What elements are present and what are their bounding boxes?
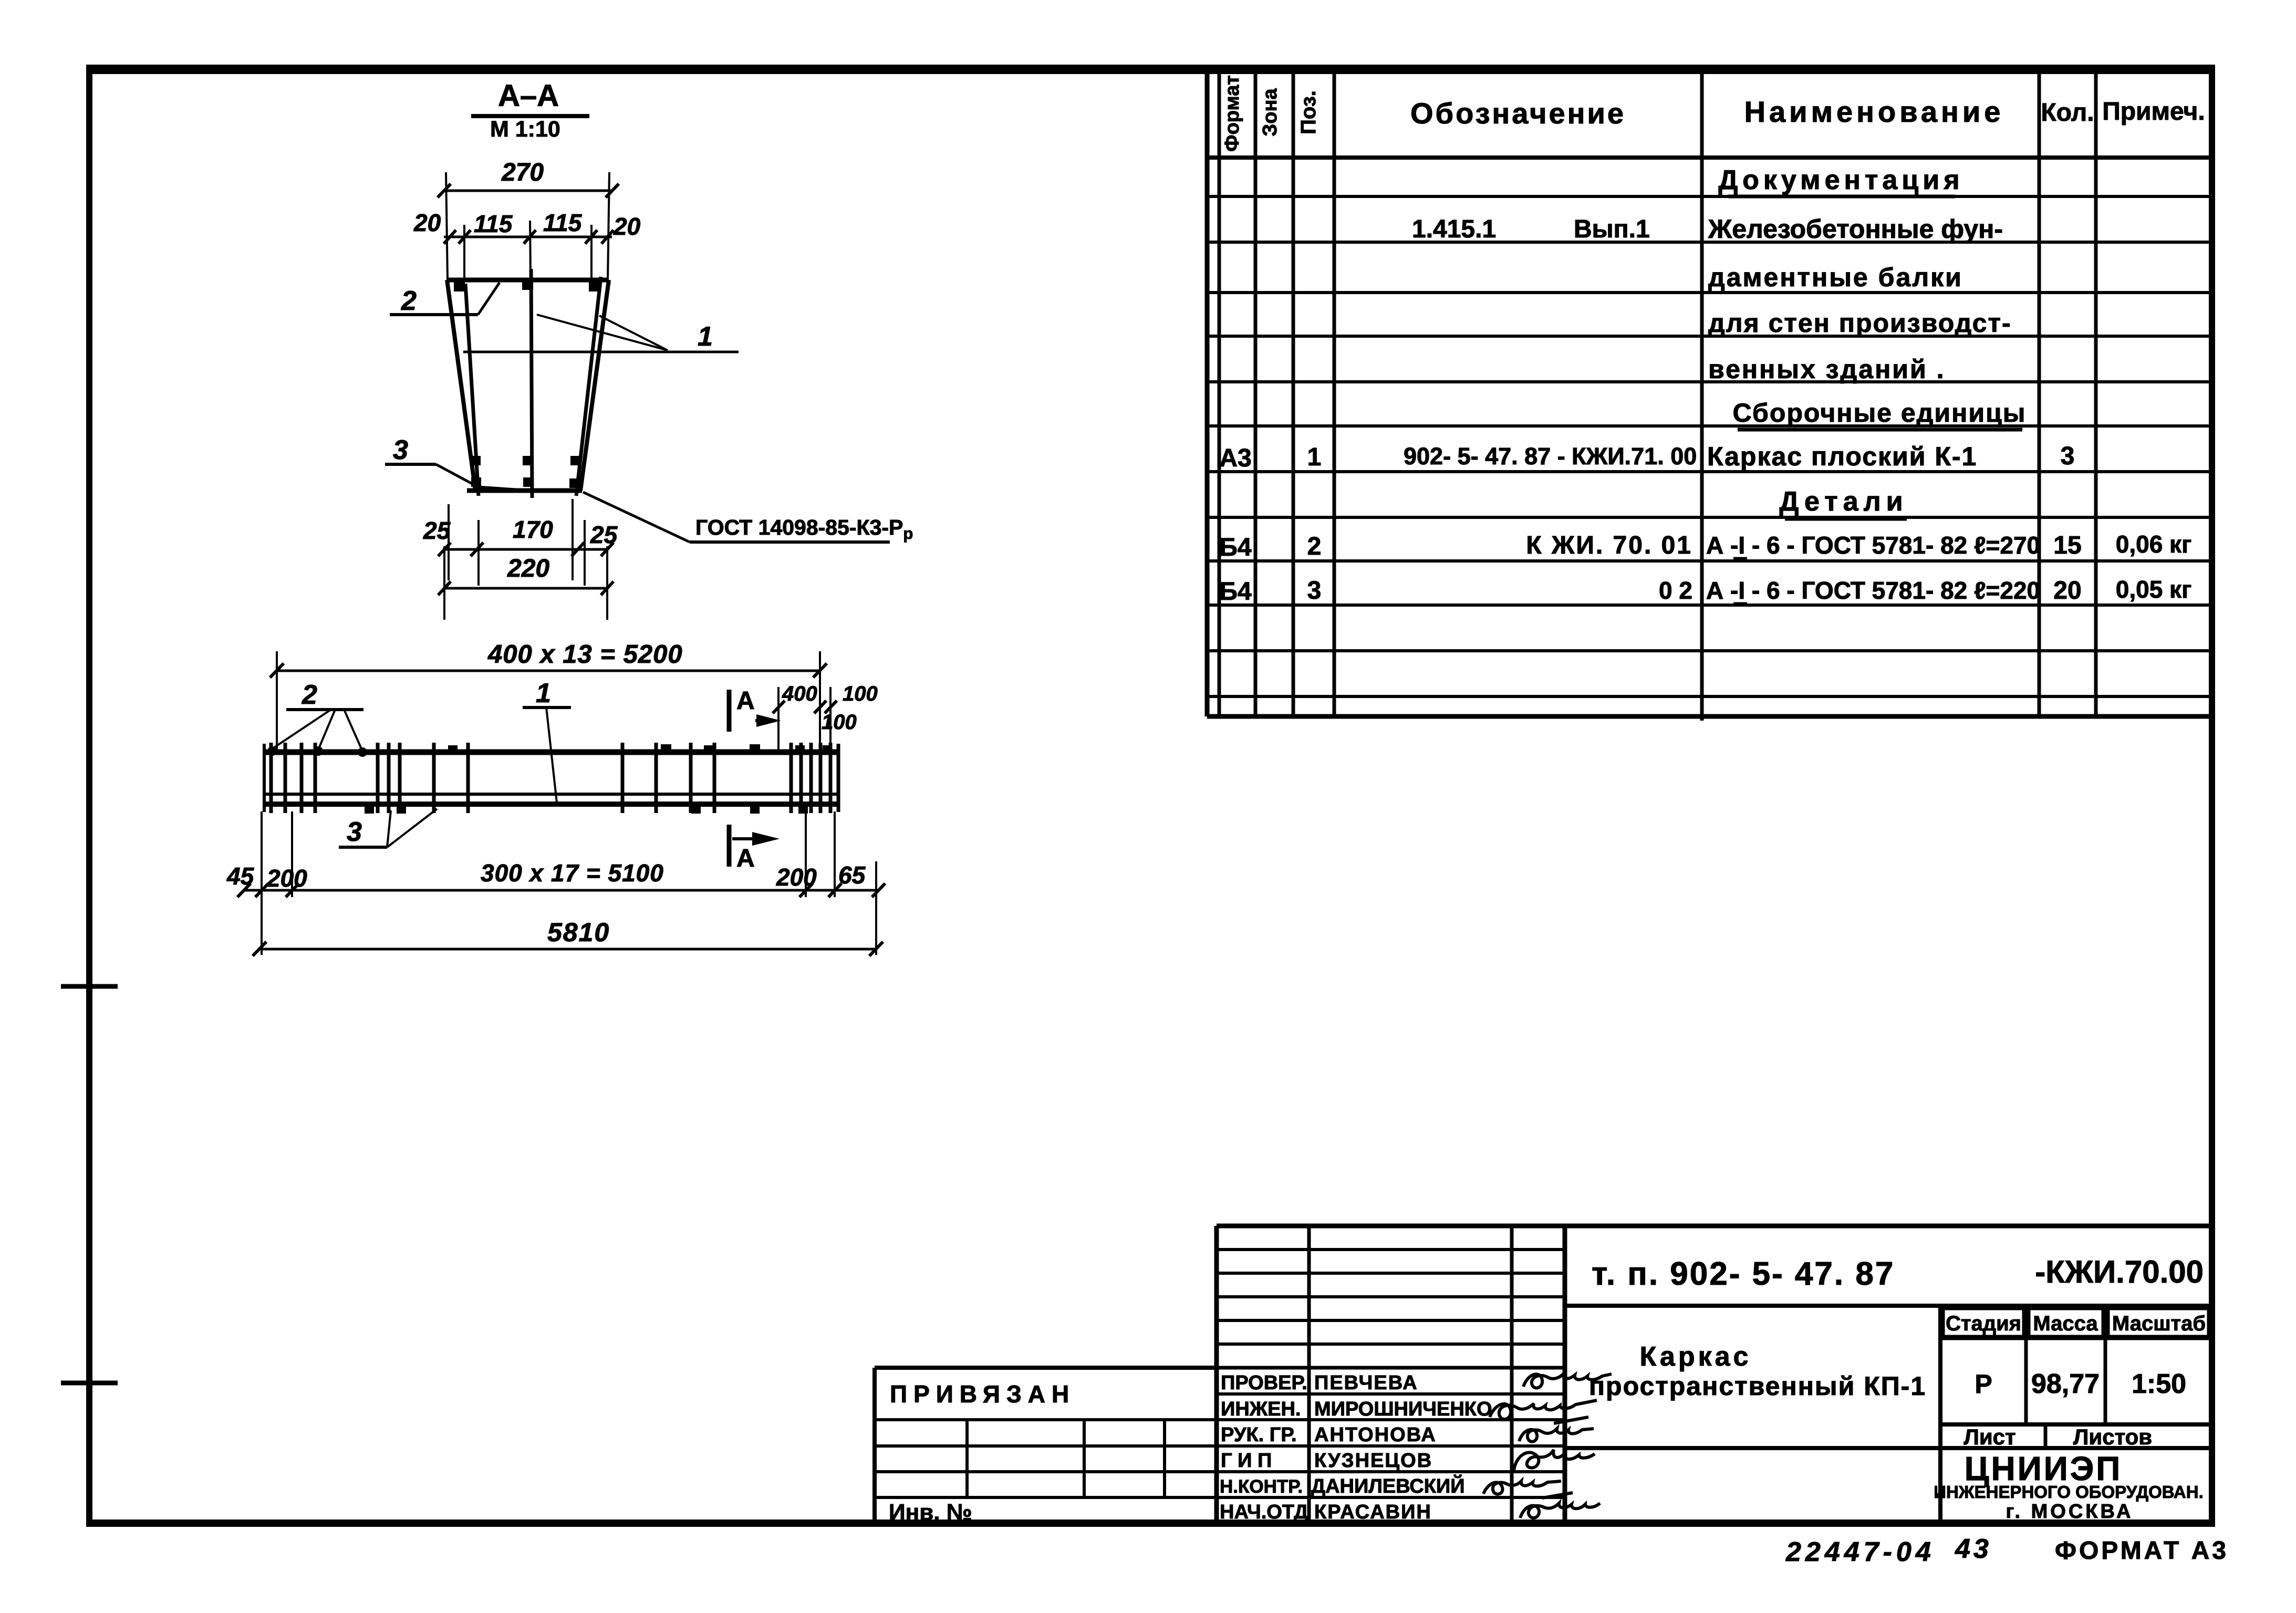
left grid line 3 [875, 1470, 1217, 1473]
crossbar dots on bottom chord [365, 805, 374, 814]
label 2 underline [286, 708, 363, 711]
rebar line left [465, 284, 479, 496]
org cell top line [1565, 1446, 2212, 1450]
dimension 400x13=5200 line [277, 670, 820, 672]
label 1 underline [523, 706, 571, 709]
svg-text:ГОСТ 14098-85-К3-Рр: ГОСТ 14098-85-К3-Рр [695, 515, 913, 543]
signature 2 [1490, 1400, 1597, 1423]
dimension 270 line [444, 190, 612, 192]
spec table column Кол right [2094, 69, 2098, 716]
svg-text:К ЖИ. 70. 01: К ЖИ. 70. 01 [1526, 532, 1692, 559]
svg-text:даментные балки: даментные балки [1708, 263, 1963, 292]
svg-text:А: А [736, 687, 755, 715]
svg-text:ИНЖЕН.: ИНЖЕН. [1221, 1398, 1301, 1420]
extension line 200 left [291, 811, 293, 897]
row Документация underline [1728, 195, 1955, 199]
spec table row line 12 [1207, 695, 2212, 698]
left grid col 1 [965, 1420, 969, 1497]
svg-text:1: 1 [1307, 443, 1322, 471]
svg-text:Каркас плоский К-1: Каркас плоский К-1 [1707, 442, 1977, 471]
spec table row line 8 [1207, 516, 2212, 519]
svg-text:20: 20 [413, 209, 441, 236]
rebar dot top center [522, 280, 533, 290]
signature 4 [1514, 1450, 1595, 1471]
leader contact dots [267, 746, 277, 756]
spec table row line 9 [1207, 559, 2212, 563]
svg-text:20: 20 [2053, 577, 2081, 605]
label 2 underline [390, 313, 478, 316]
left grid line 1 [875, 1418, 1217, 1421]
svg-text:Н.КОНТР.: Н.КОНТР. [1220, 1476, 1303, 1497]
rebar dot bottom center [523, 477, 533, 487]
stirrup group left [269, 743, 273, 813]
svg-text:ИНЖЕНЕРНОГО ОБОРУДОВАН.: ИНЖЕНЕРНОГО ОБОРУДОВАН. [1934, 1482, 2204, 1502]
extension line left [446, 172, 448, 280]
svg-text:пространственный КП-1: пространственный КП-1 [1589, 1371, 1926, 1401]
svg-text:200: 200 [266, 865, 307, 892]
left grid line 2 [875, 1444, 1217, 1448]
svg-text:КУЗНЕЦОВ: КУЗНЕЦОВ [1314, 1450, 1432, 1472]
svg-text:ФОРМАТ А3: ФОРМАТ А3 [2055, 1537, 2229, 1565]
list row divider [2044, 1424, 2048, 1448]
svg-text:А -I - 6 - ГОСТ 5781- 82 ℓ=27: А -I - 6 - ГОСТ 5781- 82 ℓ=270 [1706, 532, 2040, 559]
svg-text:2: 2 [302, 680, 317, 710]
svg-text:Документация: Документация [1718, 165, 1963, 195]
right dim ticks [773, 701, 785, 713]
label 3 underline [385, 463, 436, 466]
spec table row line 7 [1207, 470, 2212, 473]
stadia header box 1 [1944, 1309, 2023, 1336]
title block divider signature column [1510, 1226, 1514, 1523]
svg-text:Р: Р [1975, 1369, 1992, 1399]
spec table inner left line [1218, 69, 1221, 716]
svg-text:т. п. 902- 5- 47. 87: т. п. 902- 5- 47. 87 [1592, 1256, 1895, 1292]
svg-text:0 2: 0 2 [1659, 577, 1692, 604]
rebar dot top right [589, 282, 600, 292]
stirrup single a [432, 743, 436, 813]
svg-text:98,77: 98,77 [2031, 1369, 2100, 1399]
svg-text:М 1:10: М 1:10 [490, 117, 560, 142]
svg-text:5810: 5810 [547, 918, 610, 947]
svg-text:3: 3 [1307, 577, 1322, 605]
svg-text:Кол.: Кол. [2041, 99, 2094, 127]
beam section bottom edge [467, 488, 582, 493]
svg-text:Масштаб: Масштаб [2112, 1312, 2206, 1335]
svg-text:ПРИВЯЗАН: ПРИВЯЗАН [890, 1380, 1075, 1408]
svg-text:А–А: А–А [498, 79, 559, 113]
extension line 65 right [875, 861, 877, 955]
rebar dot bottom left [471, 477, 481, 487]
spec table left edge [1205, 69, 1210, 716]
spec table column Поз right [1333, 69, 1336, 716]
dimension 5810 line [259, 948, 876, 951]
title block top edge [1217, 1224, 2212, 1229]
svg-text:-КЖИ.70.00: -КЖИ.70.00 [2035, 1254, 2204, 1289]
beam section top edge [447, 278, 609, 283]
svg-text:Железобетонные фун-: Железобетонные фун- [1708, 214, 2003, 244]
stamp row lines [1217, 1366, 1565, 1370]
spec table row line 1 [1207, 195, 2212, 198]
label 3 underline [339, 846, 387, 849]
label 2 leader fan [271, 710, 331, 750]
extension line 45 [261, 811, 263, 955]
spec table bottom edge [1207, 714, 2212, 719]
dimension 300x17 line [244, 889, 878, 892]
svg-text:20: 20 [613, 213, 641, 240]
section mark A bottom bar [727, 825, 732, 867]
svg-text:Масса: Масса [2033, 1312, 2098, 1335]
row Сборочные единицы underline [1738, 428, 2022, 432]
rebar line right [576, 277, 601, 496]
list row top line [1940, 1422, 2212, 1427]
beam section right side [580, 280, 609, 491]
signature 5 [1483, 1481, 1573, 1498]
right dim extension a [777, 687, 780, 751]
extension line d [584, 520, 586, 586]
centering mark left lower [61, 1381, 118, 1386]
rebar dot mid right [570, 456, 580, 465]
left grid col 2 [1083, 1420, 1086, 1497]
svg-text:Б4: Б4 [1219, 578, 1252, 606]
dimension 25-170-25 line [444, 548, 607, 551]
extension line right of 5200 [819, 651, 821, 751]
extension line right [608, 172, 609, 280]
spec table column Обозначение right [1700, 69, 1704, 721]
svg-text:3: 3 [347, 817, 362, 847]
spec table row line 2 [1207, 241, 2212, 244]
beam left end [263, 744, 266, 812]
beam right end [837, 744, 840, 812]
svg-text:Инв. №: Инв. № [889, 1500, 972, 1525]
svg-text:3: 3 [2061, 442, 2075, 470]
svg-text:ДАНИЛЕВСКИЙ: ДАНИЛЕВСКИЙ [1311, 1474, 1465, 1497]
svg-text:270: 270 [501, 159, 544, 186]
svg-text:Наименование: Наименование [1744, 95, 2004, 128]
stadia column dividers [2024, 1306, 2028, 1424]
svg-text:220: 220 [507, 555, 549, 582]
svg-text:1: 1 [536, 678, 551, 709]
stirrup single c [621, 743, 625, 813]
svg-text:ПРОВЕР.: ПРОВЕР. [1221, 1372, 1307, 1394]
svg-text:0,06 кг: 0,06 кг [2116, 530, 2192, 558]
svg-text:2: 2 [1307, 533, 1322, 560]
stirrup group right [789, 743, 793, 813]
svg-text:1.415.1: 1.415.1 [1412, 215, 1496, 243]
row 3: underline of I [1733, 602, 1747, 605]
title block divider name column [1307, 1226, 1311, 1523]
svg-text:НАЧ.ОТД: НАЧ.ОТД [1220, 1501, 1308, 1523]
svg-text:ПЕВЧЕВА: ПЕВЧЕВА [1314, 1372, 1418, 1394]
left grid line 4 [875, 1496, 1217, 1499]
beam bottom chord upper line [264, 793, 838, 796]
svg-text:Лист: Лист [1963, 1424, 2016, 1449]
svg-text:г. МОСКВА: г. МОСКВА [2006, 1501, 2134, 1523]
spec table row line 11 [1207, 649, 2212, 652]
svg-text:Обозначение: Обозначение [1410, 97, 1626, 130]
svg-text:Вып.1: Вып.1 [1574, 215, 1650, 243]
extension line 65 left [834, 811, 836, 897]
title block left edge [1214, 1226, 1219, 1523]
stirrup pair mid [689, 743, 693, 813]
svg-text:АНТОНОВА: АНТОНОВА [1314, 1424, 1437, 1446]
spec table column Наименование right [2038, 69, 2041, 716]
svg-text:Г И П: Г И П [1221, 1450, 1272, 1472]
doc number cell line [1565, 1304, 2212, 1308]
title block divider main [1563, 1226, 1567, 1523]
extension line 200 right [805, 811, 807, 897]
spec table row line 3 [1207, 291, 2212, 294]
svg-text:МИРОШНИЧЕНКО: МИРОШНИЧЕНКО [1314, 1398, 1492, 1420]
caption cell right divider [1938, 1306, 1942, 1523]
section mark A bottom arrow [732, 837, 768, 840]
svg-text:Листов: Листов [2073, 1424, 2152, 1449]
svg-text:1: 1 [698, 321, 713, 352]
weld callout underline [690, 540, 890, 544]
svg-text:Примеч.: Примеч. [2102, 98, 2205, 126]
label 2 leader [478, 283, 500, 315]
extension line f [606, 546, 608, 620]
svg-text:Стадия: Стадия [1946, 1312, 2021, 1335]
beam top chord [264, 750, 838, 755]
spec table row line 5 [1207, 380, 2212, 383]
signature 1 [1523, 1374, 1612, 1388]
svg-text:400: 400 [782, 682, 817, 705]
rebar dot bottom right [569, 478, 579, 488]
привязан box left [872, 1368, 877, 1523]
svg-text:43: 43 [1955, 1534, 1992, 1564]
rebar dot mid left [471, 456, 481, 465]
extension line e [443, 546, 445, 620]
svg-text:15: 15 [2053, 532, 2081, 559]
привязан box top [875, 1366, 1217, 1370]
rebar dot top left [454, 282, 465, 292]
svg-text:170: 170 [513, 516, 553, 543]
svg-text:100: 100 [843, 682, 878, 705]
extension line bar3 [530, 221, 531, 277]
spec table row line 6 [1207, 424, 2212, 428]
left grid col 3 [1163, 1420, 1166, 1497]
label 3 leader fan [387, 810, 391, 847]
weld callout leader [583, 492, 690, 542]
extension line c [572, 499, 574, 580]
svg-text:Зона: Зона [1259, 88, 1281, 137]
extension line bar2 [463, 225, 465, 278]
svg-text:400 х 13 = 5200: 400 х 13 = 5200 [487, 640, 683, 669]
svg-text:А: А [736, 845, 755, 872]
svg-text:для стен производст-: для стен производст- [1708, 308, 2012, 338]
svg-text:3: 3 [393, 435, 408, 465]
svg-text:РУК. ГР.: РУК. ГР. [1221, 1424, 1297, 1446]
svg-text:0,05 кг: 0,05 кг [2116, 576, 2192, 603]
row Детали underline [1785, 517, 1907, 521]
row 2: underline of I [1733, 557, 1747, 560]
rebar line center [531, 269, 532, 498]
stirrup group 2 [376, 743, 380, 813]
svg-text:300 х 17 = 5100: 300 х 17 = 5100 [481, 859, 664, 887]
label 1 leader fan a [537, 315, 668, 350]
stirrup single d [654, 743, 658, 813]
mini grid row lines [1217, 1248, 1565, 1251]
spec table column Формат right [1254, 69, 1258, 716]
svg-text:Сборочные единицы: Сборочные единицы [1733, 398, 2027, 428]
svg-text:КРАСАВИН: КРАСАВИН [1314, 1501, 1432, 1523]
section mark A top bar [727, 690, 732, 732]
svg-text:А -I - 6 - ГОСТ 5781- 82 ℓ=220: А -I - 6 - ГОСТ 5781- 82 ℓ=220 [1706, 577, 2040, 604]
svg-text:Формат: Формат [1221, 75, 1243, 152]
svg-text:Поз.: Поз. [1297, 90, 1320, 134]
svg-text:2: 2 [401, 286, 417, 316]
extension line left of 5200 [276, 651, 278, 751]
extension line bar4 [590, 225, 593, 278]
label 1 leader fan b [599, 316, 668, 350]
svg-text:25: 25 [423, 517, 451, 544]
right dim extension b [829, 687, 832, 751]
spec table row line 4 [1207, 335, 2212, 338]
svg-text:100: 100 [822, 711, 857, 734]
dimension 220 line [444, 587, 607, 590]
beam section left side [447, 280, 475, 491]
spec table row line 10 [1207, 603, 2212, 607]
section A-A title underline [471, 114, 589, 118]
centering mark left upper [61, 984, 118, 989]
svg-text:902- 5- 47. 87 - КЖИ.71. 00: 902- 5- 47. 87 - КЖИ.71. 00 [1404, 443, 1697, 470]
spec table header bottom [1207, 155, 2212, 160]
svg-text:венных зданий .: венных зданий . [1708, 355, 1946, 384]
svg-text:Каркас: Каркас [1640, 1341, 1752, 1372]
dimension 20-115-115-20 line [444, 236, 612, 238]
stadia header box 3 [2108, 1309, 2208, 1336]
section mark A top arrow [755, 719, 771, 722]
label 3 leader [436, 464, 532, 491]
svg-text:1:50: 1:50 [2132, 1369, 2186, 1399]
rebar dot mid center [523, 456, 533, 465]
label 1 leader line [463, 351, 739, 353]
extension line b [477, 520, 480, 586]
extension line a [448, 504, 450, 580]
stirrup single b [466, 743, 470, 813]
label 1 leader [546, 707, 557, 803]
svg-text:Б4: Б4 [1219, 534, 1252, 561]
svg-text:А3: А3 [1219, 444, 1251, 472]
spec table column Зона right [1292, 69, 1295, 716]
signature 6 [1520, 1503, 1600, 1518]
svg-text:115: 115 [474, 210, 513, 237]
beam bottom chord lower line [264, 802, 838, 807]
stadia header underline [1940, 1337, 2212, 1340]
svg-text:115: 115 [543, 209, 583, 236]
svg-text:Детали: Детали [1779, 486, 1908, 517]
crossbar dots on top chord [448, 745, 458, 753]
svg-text:22447-04: 22447-04 [1785, 1537, 1935, 1567]
stadia header box 2 [2029, 1309, 2103, 1336]
signature 3 [1519, 1429, 1594, 1442]
